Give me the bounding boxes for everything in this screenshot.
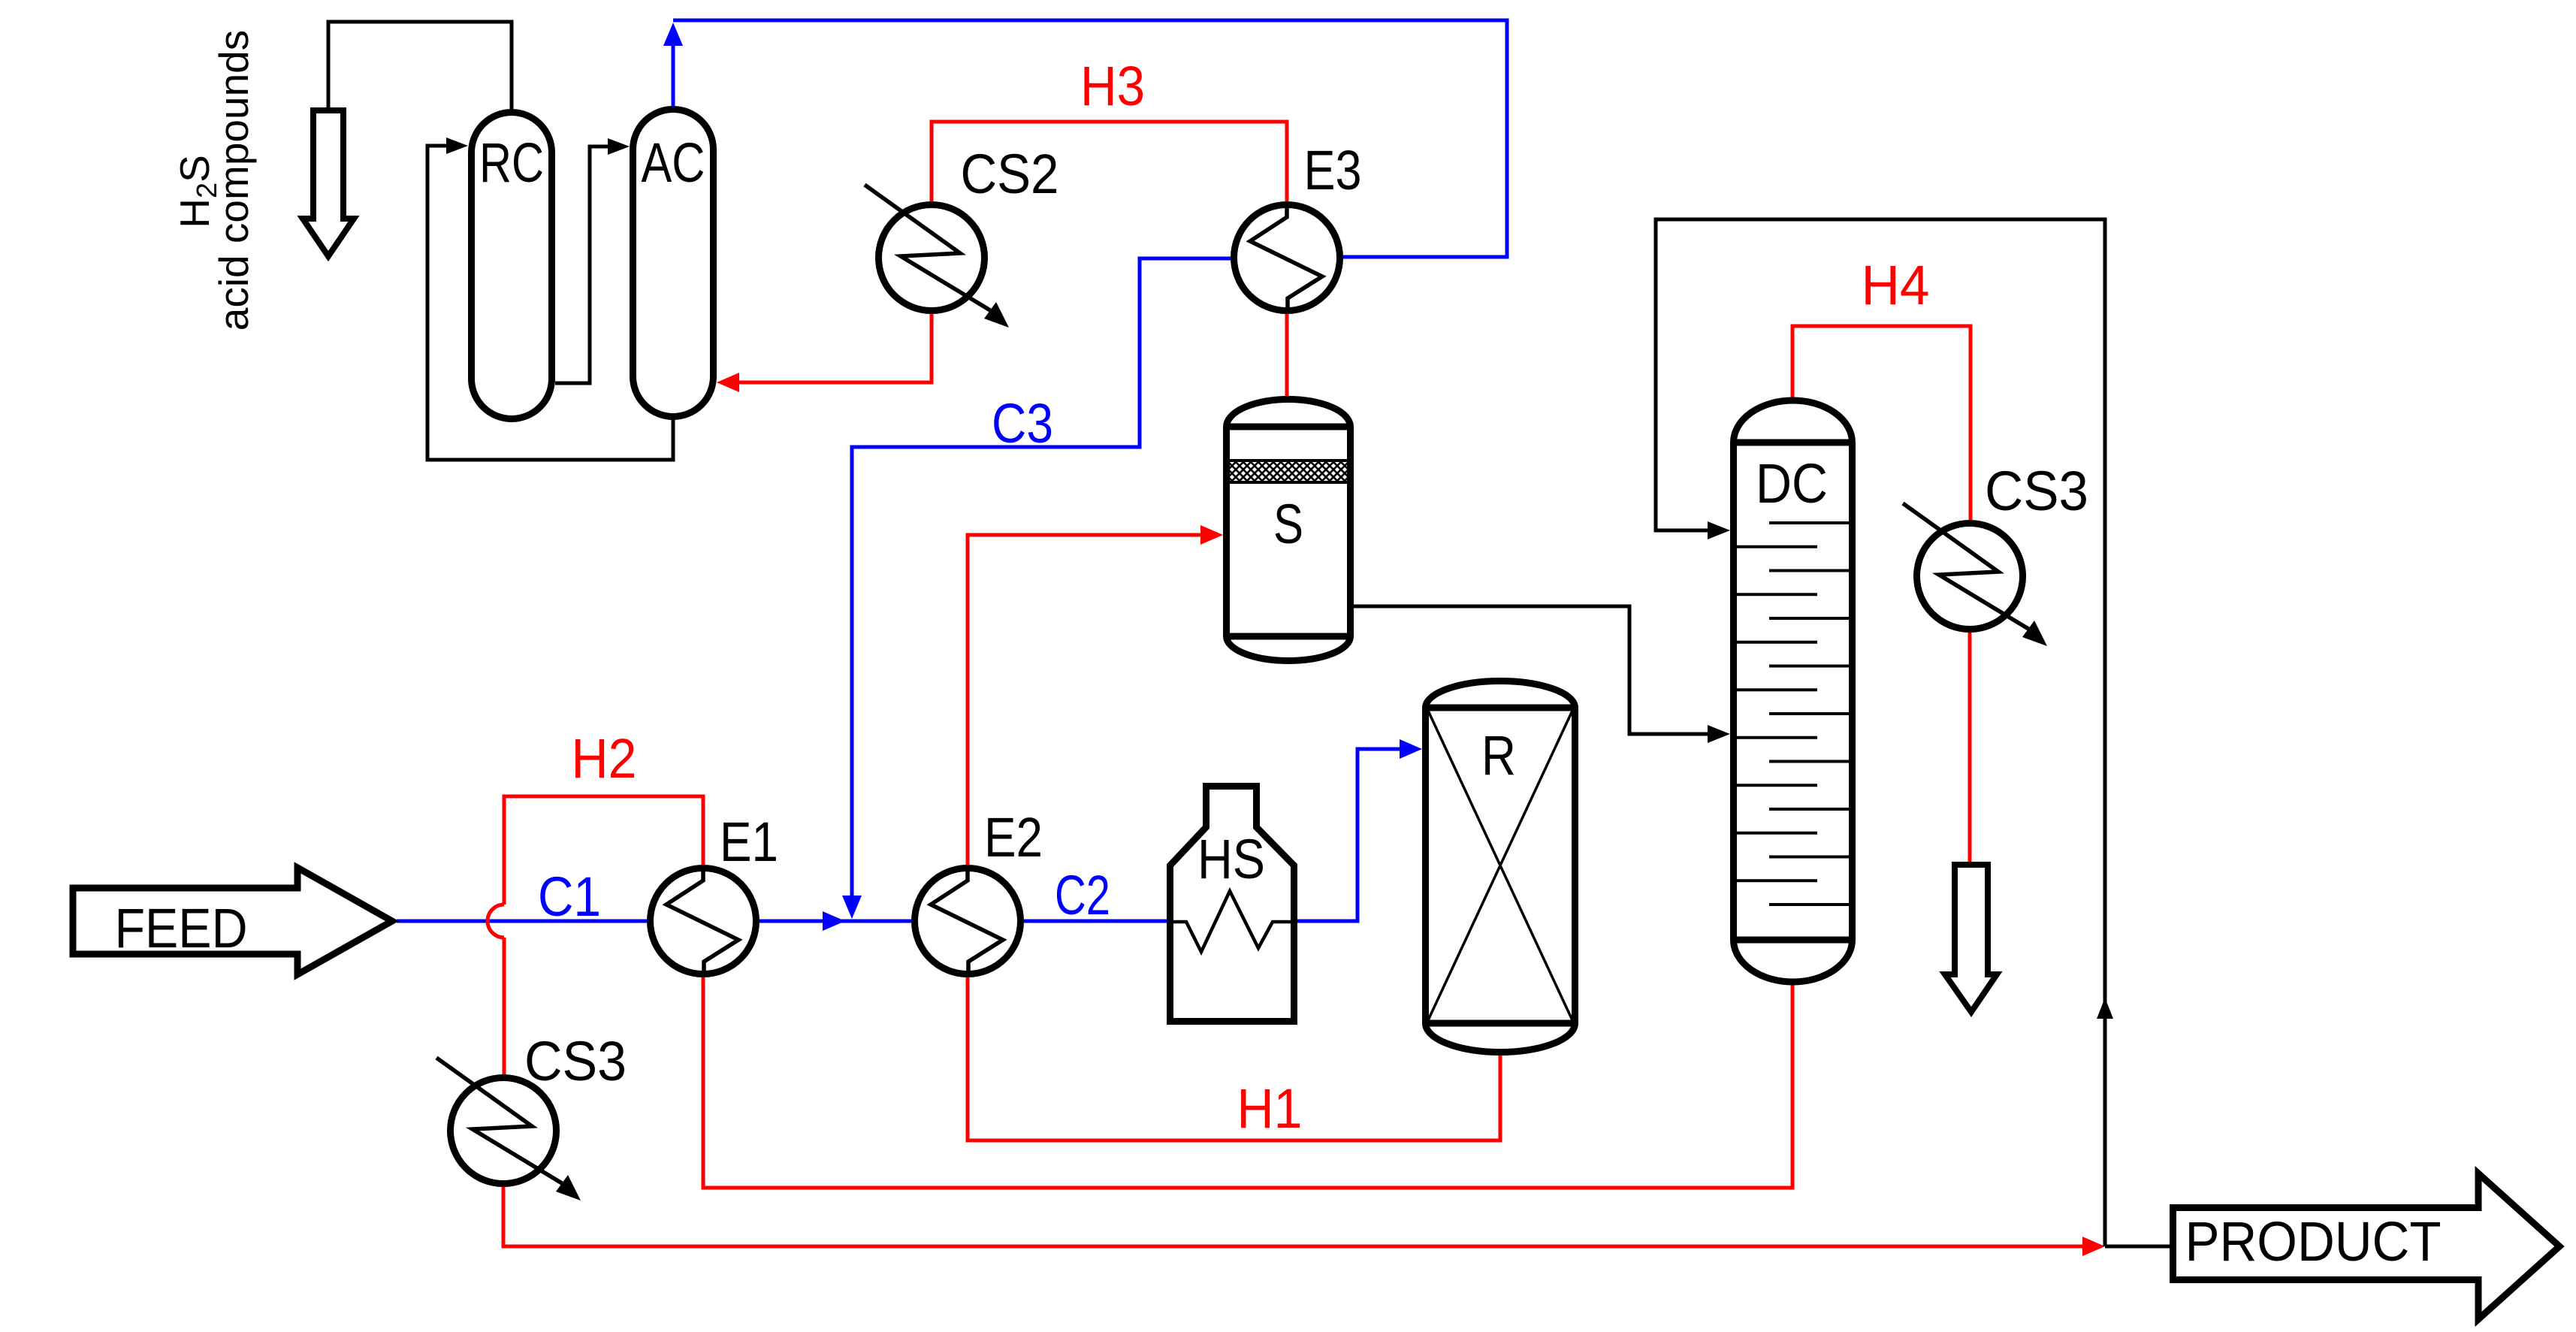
svg-text:C2: C2 bbox=[1055, 864, 1110, 926]
svg-text:CS2: CS2 bbox=[961, 143, 1059, 205]
svg-text:CS3: CS3 bbox=[524, 1030, 627, 1092]
svg-text:S: S bbox=[1273, 493, 1303, 555]
svg-text:E3: E3 bbox=[1304, 139, 1362, 201]
svg-text:H4: H4 bbox=[1862, 254, 1930, 316]
svg-text:acid compounds: acid compounds bbox=[210, 30, 257, 331]
svg-text:AC: AC bbox=[642, 131, 705, 194]
svg-text:C1: C1 bbox=[538, 865, 601, 928]
svg-text:DC: DC bbox=[1756, 452, 1828, 515]
svg-text:E1: E1 bbox=[720, 811, 778, 873]
svg-text:H2: H2 bbox=[572, 727, 637, 790]
svg-text:CS3: CS3 bbox=[1985, 460, 2088, 522]
svg-text:E2: E2 bbox=[984, 806, 1043, 868]
svg-text:H3: H3 bbox=[1080, 55, 1145, 117]
svg-text:R: R bbox=[1481, 724, 1516, 787]
svg-text:PRODUCT: PRODUCT bbox=[2185, 1210, 2442, 1273]
svg-text:FEED: FEED bbox=[115, 897, 248, 959]
svg-text:C3: C3 bbox=[992, 392, 1053, 455]
svg-text:HS: HS bbox=[1197, 828, 1265, 890]
svg-text:RC: RC bbox=[479, 131, 544, 194]
svg-text:H1: H1 bbox=[1237, 1077, 1303, 1140]
